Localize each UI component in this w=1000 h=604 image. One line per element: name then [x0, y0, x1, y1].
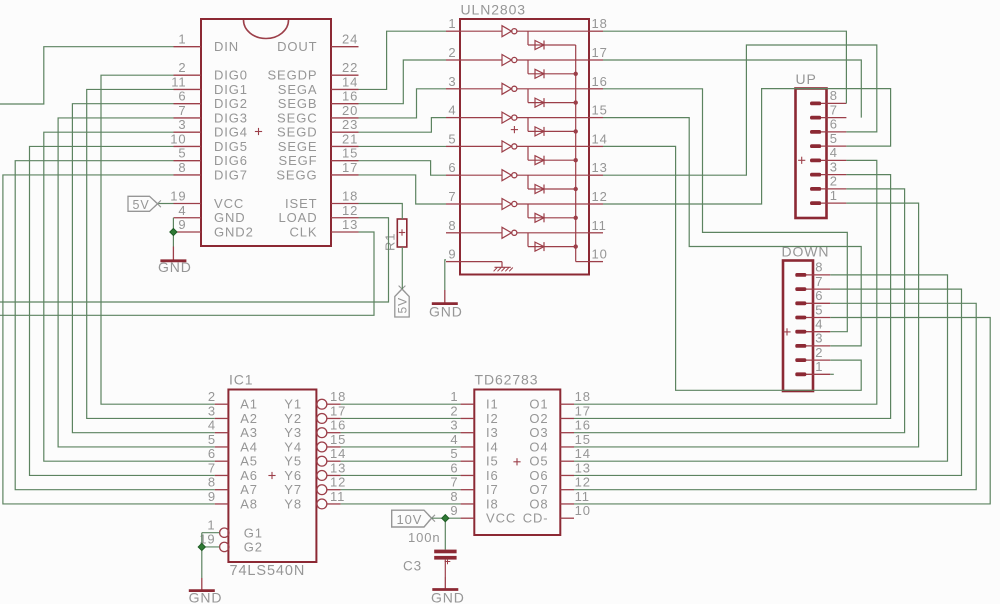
svg-text:13: 13: [592, 160, 608, 175]
svg-text:GND: GND: [214, 210, 246, 225]
svg-text:I8: I8: [486, 496, 499, 511]
svg-text:13: 13: [330, 460, 346, 475]
svg-text:A8: A8: [240, 496, 258, 511]
svg-text:2: 2: [450, 403, 458, 418]
svg-text:21: 21: [342, 131, 358, 146]
svg-text:I6: I6: [486, 468, 499, 483]
svg-text:12: 12: [592, 189, 608, 204]
svg-text:I3: I3: [486, 425, 499, 440]
svg-text:3: 3: [178, 117, 186, 132]
svg-text:5V: 5V: [395, 297, 409, 313]
svg-text:8: 8: [208, 475, 216, 490]
svg-text:1: 1: [448, 16, 456, 31]
svg-text:DIG5: DIG5: [214, 139, 248, 154]
svg-text:4: 4: [450, 432, 458, 447]
svg-text:1: 1: [178, 32, 186, 47]
svg-text:GND2: GND2: [214, 224, 254, 239]
svg-text:9: 9: [178, 217, 186, 232]
svg-text:2: 2: [830, 174, 838, 189]
svg-text:O3: O3: [529, 425, 548, 440]
svg-text:DIG3: DIG3: [214, 110, 248, 125]
svg-text:O1: O1: [529, 397, 548, 412]
svg-text:24: 24: [342, 32, 358, 47]
svg-text:R1: R1: [383, 233, 398, 251]
svg-text:3: 3: [830, 159, 838, 174]
svg-text:10V: 10V: [397, 512, 423, 527]
svg-text:3: 3: [815, 331, 823, 346]
svg-text:GND: GND: [189, 590, 223, 604]
svg-text:6: 6: [208, 446, 216, 461]
svg-text:20: 20: [342, 103, 358, 118]
svg-text:SEGA: SEGA: [278, 82, 318, 97]
svg-text:GND: GND: [431, 590, 465, 604]
svg-text:A2: A2: [240, 411, 258, 426]
svg-text:14: 14: [575, 446, 591, 461]
svg-text:O8: O8: [529, 496, 548, 511]
svg-text:6: 6: [815, 288, 823, 303]
svg-text:5: 5: [208, 432, 216, 447]
svg-text:15: 15: [592, 103, 608, 118]
svg-text:I2: I2: [486, 411, 499, 426]
svg-text:O6: O6: [529, 468, 548, 483]
svg-text:4: 4: [830, 145, 838, 160]
svg-text:5: 5: [815, 302, 823, 317]
svg-text:8: 8: [830, 88, 838, 103]
svg-text:14: 14: [592, 131, 608, 146]
svg-text:11: 11: [592, 218, 607, 233]
svg-text:9: 9: [450, 503, 458, 518]
svg-text:5: 5: [178, 146, 186, 161]
svg-text:3: 3: [208, 403, 216, 418]
svg-text:14: 14: [330, 446, 346, 461]
svg-text:16: 16: [592, 74, 608, 89]
svg-text:LOAD: LOAD: [278, 210, 317, 225]
svg-text:GND: GND: [158, 259, 192, 275]
svg-text:1: 1: [830, 188, 838, 203]
svg-text:DIG7: DIG7: [214, 167, 248, 182]
svg-text:VCC: VCC: [486, 511, 516, 526]
svg-text:A6: A6: [240, 468, 258, 483]
svg-text:ISET: ISET: [285, 196, 318, 211]
svg-text:Y5: Y5: [284, 454, 302, 469]
svg-text:17: 17: [575, 403, 591, 418]
svg-text:A7: A7: [240, 482, 258, 497]
svg-text:Y3: Y3: [284, 425, 302, 440]
svg-text:DIG1: DIG1: [214, 82, 248, 97]
svg-text:4: 4: [178, 203, 186, 218]
svg-text:6: 6: [178, 89, 186, 104]
svg-text:5: 5: [448, 131, 456, 146]
svg-text:22: 22: [342, 60, 358, 75]
svg-text:11: 11: [575, 489, 590, 504]
svg-text:DIG2: DIG2: [214, 96, 248, 111]
svg-text:7: 7: [178, 103, 186, 118]
svg-text:5V: 5V: [133, 198, 150, 212]
svg-text:8: 8: [815, 260, 823, 275]
svg-text:CLK: CLK: [290, 224, 318, 239]
svg-text:15: 15: [575, 432, 591, 447]
svg-text:G2: G2: [244, 540, 263, 555]
svg-text:13: 13: [342, 217, 358, 232]
svg-text:SEGG: SEGG: [276, 167, 317, 182]
svg-text:C3: C3: [403, 559, 422, 574]
svg-text:18: 18: [592, 16, 608, 31]
svg-text:5: 5: [830, 131, 838, 146]
svg-text:3: 3: [448, 74, 456, 89]
svg-text:6: 6: [830, 117, 838, 132]
svg-text:9: 9: [208, 489, 216, 504]
svg-text:SEGD: SEGD: [277, 125, 317, 140]
svg-text:I5: I5: [486, 454, 499, 469]
svg-text:15: 15: [342, 146, 358, 161]
svg-text:A4: A4: [240, 439, 258, 454]
svg-text:23: 23: [342, 117, 358, 132]
svg-text:18: 18: [330, 389, 346, 404]
svg-text:7: 7: [815, 274, 823, 289]
svg-text:7: 7: [208, 460, 216, 475]
svg-text:I4: I4: [486, 439, 499, 454]
svg-text:2: 2: [208, 389, 216, 404]
svg-text:DIN: DIN: [214, 39, 239, 54]
svg-text:5: 5: [450, 446, 458, 461]
svg-text:O4: O4: [529, 439, 548, 454]
svg-text:1: 1: [207, 517, 215, 532]
svg-text:SEGB: SEGB: [278, 96, 318, 111]
svg-text:18: 18: [342, 189, 358, 204]
svg-text:10: 10: [592, 247, 608, 262]
svg-text:CD-: CD-: [523, 511, 549, 526]
svg-text:6: 6: [448, 160, 456, 175]
svg-text:2: 2: [815, 345, 823, 360]
svg-text:Y8: Y8: [284, 496, 302, 511]
svg-text:DOUT: DOUT: [277, 39, 317, 54]
svg-text:13: 13: [575, 460, 591, 475]
svg-text:100n: 100n: [408, 530, 441, 545]
svg-text:1: 1: [450, 389, 458, 404]
svg-text:SEGDP: SEGDP: [267, 68, 317, 83]
svg-text:TD62783: TD62783: [475, 372, 539, 388]
svg-text:ULN2803: ULN2803: [461, 2, 526, 18]
svg-text:IC1: IC1: [229, 372, 254, 388]
svg-text:Y6: Y6: [284, 468, 302, 483]
svg-text:I7: I7: [486, 482, 499, 497]
svg-text:18: 18: [575, 389, 591, 404]
svg-text:I1: I1: [486, 397, 499, 412]
svg-text:8: 8: [448, 218, 456, 233]
svg-text:17: 17: [330, 403, 346, 418]
svg-text:16: 16: [342, 89, 358, 104]
svg-text:1: 1: [815, 359, 823, 374]
svg-text:A1: A1: [240, 397, 258, 412]
svg-text:G1: G1: [244, 525, 263, 540]
svg-text:VCC: VCC: [214, 196, 244, 211]
svg-text:O2: O2: [529, 411, 548, 426]
svg-text:8: 8: [178, 160, 186, 175]
svg-text:17: 17: [592, 45, 608, 60]
svg-text:4: 4: [815, 317, 823, 332]
svg-text:DIG4: DIG4: [214, 125, 248, 140]
svg-text:9: 9: [448, 247, 456, 262]
svg-text:12: 12: [575, 475, 591, 490]
svg-text:11: 11: [171, 74, 186, 89]
svg-text:Y4: Y4: [284, 439, 302, 454]
svg-text:7: 7: [830, 102, 838, 117]
svg-text:DIG0: DIG0: [214, 68, 248, 83]
svg-text:10: 10: [575, 503, 591, 518]
svg-text:16: 16: [575, 418, 591, 433]
svg-text:4: 4: [208, 418, 216, 433]
svg-text:6: 6: [450, 460, 458, 475]
svg-text:7: 7: [450, 475, 458, 490]
svg-text:16: 16: [330, 418, 346, 433]
svg-text:8: 8: [450, 489, 458, 504]
svg-text:SEGC: SEGC: [277, 110, 317, 125]
svg-text:17: 17: [342, 160, 358, 175]
svg-text:SEGE: SEGE: [278, 139, 318, 154]
svg-text:Y7: Y7: [284, 482, 302, 497]
svg-text:A3: A3: [240, 425, 258, 440]
svg-text:2: 2: [178, 60, 186, 75]
svg-text:Y2: Y2: [284, 411, 302, 426]
svg-text:14: 14: [342, 74, 358, 89]
svg-text:GND: GND: [429, 304, 463, 320]
svg-text:74LS540N: 74LS540N: [230, 563, 306, 579]
svg-text:UP: UP: [796, 71, 817, 87]
svg-text:4: 4: [448, 103, 456, 118]
svg-text:2: 2: [448, 45, 456, 60]
svg-text:Y1: Y1: [284, 397, 302, 412]
svg-text:19: 19: [170, 189, 186, 204]
svg-text:A5: A5: [240, 454, 258, 469]
svg-text:O5: O5: [529, 454, 548, 469]
svg-text:SEGF: SEGF: [279, 153, 318, 168]
svg-text:12: 12: [330, 475, 346, 490]
svg-text:10: 10: [170, 131, 186, 146]
svg-text:7: 7: [448, 189, 456, 204]
svg-text:12: 12: [342, 203, 358, 218]
svg-text:15: 15: [330, 432, 346, 447]
svg-text:3: 3: [450, 418, 458, 433]
svg-text:O7: O7: [529, 482, 548, 497]
svg-text:DIG6: DIG6: [214, 153, 248, 168]
svg-text:11: 11: [330, 489, 345, 504]
